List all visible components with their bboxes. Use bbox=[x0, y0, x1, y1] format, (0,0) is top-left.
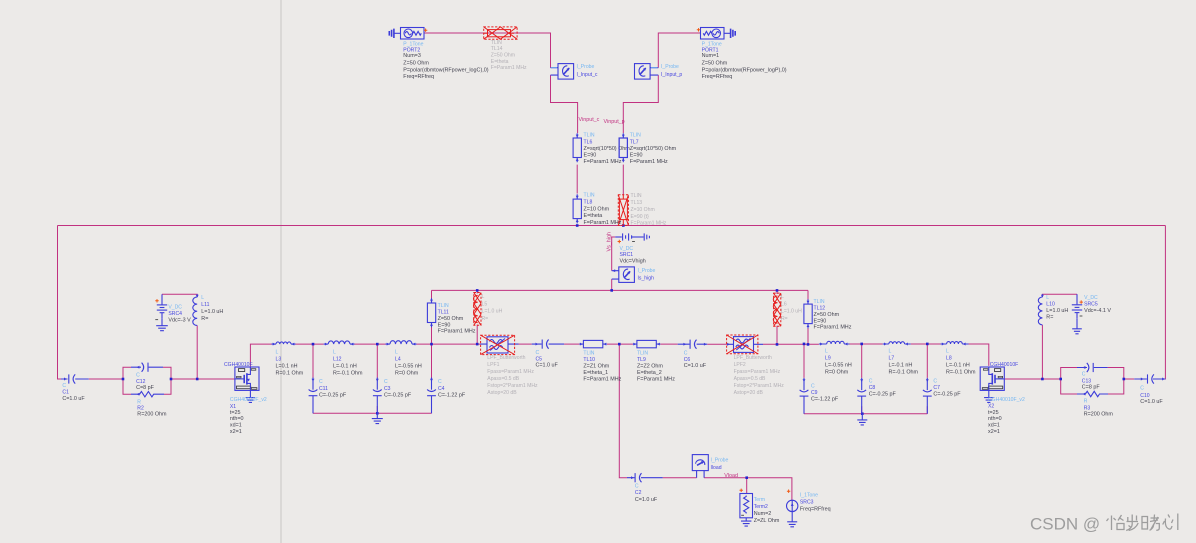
svg-text:C=-0.25 pF: C=-0.25 pF bbox=[933, 392, 961, 398]
capacitor C1 bbox=[61, 378, 89, 380]
inductor L11 bbox=[196, 294, 198, 297]
svg-text:Z=ZL Ohm: Z=ZL Ohm bbox=[754, 518, 780, 524]
svg-text:SRC1: SRC1 bbox=[620, 252, 634, 258]
svg-text:L=0.1 nH: L=0.1 nH bbox=[276, 364, 298, 370]
ground of output ladder bbox=[857, 414, 867, 425]
capacitor C8 bbox=[861, 378, 863, 390]
svg-text:C=8 pF: C=8 pF bbox=[1082, 385, 1101, 391]
wire drain supply rail bbox=[432, 289, 809, 291]
wire C1 to C12 box bbox=[89, 378, 123, 380]
wire C4 column bbox=[431, 344, 433, 413]
svg-text:L12: L12 bbox=[333, 357, 342, 363]
svg-text:Fpass=Param1 MHz: Fpass=Param1 MHz bbox=[487, 369, 534, 375]
wire LPF2 to L9 bbox=[763, 343, 819, 345]
svg-text:C=-1.22 pF: C=-1.22 pF bbox=[438, 393, 466, 399]
resistor R2 (in RC box) bbox=[131, 392, 164, 397]
svg-text:R=-0.1 Ohm: R=-0.1 Ohm bbox=[946, 370, 976, 376]
svg-text:Z=10 Ohm: Z=10 Ohm bbox=[584, 206, 610, 212]
wire PORT2 to TL14 to corner bbox=[425, 33, 551, 68]
svg-text:L: L bbox=[825, 349, 828, 355]
svg-text:C6: C6 bbox=[684, 357, 691, 363]
transmission line TLIN TL12 bbox=[807, 299, 809, 328]
svg-text:Num=2: Num=2 bbox=[754, 511, 772, 517]
page boundary line bbox=[280, 0, 282, 543]
svg-text:TL11: TL11 bbox=[438, 310, 449, 316]
wire TL11 top bbox=[431, 290, 433, 302]
svg-text:R: R bbox=[1084, 399, 1088, 405]
svg-text:P=polar(dbmtow(RFpower_logC),0: P=polar(dbmtow(RFpower_logC),0) bbox=[403, 68, 488, 74]
inductor L8 bbox=[941, 343, 969, 345]
wire C12R2 box to X1 gate bbox=[171, 378, 235, 380]
wire left drop to C1 bbox=[58, 226, 62, 380]
svg-text:TLIN: TLIN bbox=[584, 133, 595, 139]
svg-text:TLIN: TLIN bbox=[491, 40, 502, 46]
svg-text:C: C bbox=[869, 379, 873, 385]
deactivated inductor L6 bbox=[773, 296, 777, 323]
deactivated inductor L5 bbox=[473, 295, 477, 322]
svg-text:C4: C4 bbox=[438, 386, 445, 392]
svg-text:L=-0.1 nH: L=-0.1 nH bbox=[889, 363, 913, 369]
svg-text:L: L bbox=[781, 294, 784, 300]
transmission line TLIN TL8 bbox=[576, 194, 578, 223]
svg-text:Is_high: Is_high bbox=[638, 275, 655, 281]
svg-text:x2=1: x2=1 bbox=[988, 429, 1000, 435]
svg-text:L=-0.1 nH: L=-0.1 nH bbox=[946, 363, 970, 369]
wire right drop to C10 bbox=[1155, 226, 1166, 380]
svg-text:V_DC: V_DC bbox=[1084, 295, 1098, 301]
ground of input ladder bbox=[372, 413, 383, 423]
wire I_Input_c to Vinput_c node bbox=[551, 75, 578, 133]
svg-text:I_1Tone: I_1Tone bbox=[800, 493, 818, 499]
svg-text:L=-0.1 nH: L=-0.1 nH bbox=[333, 364, 357, 370]
wire SRC4 to L11 bbox=[162, 294, 197, 297]
capacitor C11 bbox=[312, 378, 314, 390]
svg-text:R=: R= bbox=[201, 316, 208, 322]
svg-text:Z=50 Ohm: Z=50 Ohm bbox=[491, 53, 515, 59]
junction L10 gate bias node bbox=[1041, 378, 1044, 381]
svg-text:L=-0.55 nH: L=-0.55 nH bbox=[825, 363, 852, 369]
svg-text:C: C bbox=[635, 484, 639, 490]
svg-text:Fstop=2*Param1 MHz: Fstop=2*Param1 MHz bbox=[734, 383, 785, 389]
capacitor C5 bbox=[532, 343, 564, 345]
resistor R3 (in RC box) bbox=[1077, 391, 1108, 396]
svg-text:R=0.1 Ohm: R=0.1 Ohm bbox=[276, 371, 304, 377]
svg-text:R=: R= bbox=[1046, 315, 1053, 321]
svg-text:R=0 Ohm: R=0 Ohm bbox=[395, 371, 419, 377]
svg-text:L: L bbox=[482, 294, 485, 300]
junction L5-supply rail bbox=[476, 289, 479, 292]
wire TL6 to TL8 bbox=[576, 165, 578, 194]
wire Is_high to rail bbox=[611, 279, 613, 290]
svg-text:LPF_Butterworth: LPF_Butterworth bbox=[734, 355, 772, 361]
wire TL12 bottom bbox=[807, 324, 809, 345]
svg-text:LPF1: LPF1 bbox=[487, 362, 499, 368]
svg-text:C2: C2 bbox=[635, 490, 642, 496]
wire output to C2 bbox=[619, 344, 627, 478]
junction L6 node bbox=[776, 343, 779, 346]
svg-text:L=1.0 uH: L=1.0 uH bbox=[781, 309, 802, 315]
svg-text:Vinput_p: Vinput_p bbox=[604, 119, 625, 125]
svg-text:Z=10 Ohm: Z=10 Ohm bbox=[631, 207, 655, 213]
svg-text:L: L bbox=[946, 349, 949, 355]
svg-text:I_Input_p: I_Input_p bbox=[661, 72, 682, 78]
svg-text:C=-1.22 pF: C=-1.22 pF bbox=[811, 397, 839, 403]
wire C3 column bbox=[376, 344, 378, 413]
current probe I_Probe Is_high bbox=[612, 271, 619, 279]
svg-text:C10: C10 bbox=[1140, 393, 1150, 399]
junction C13 box left pin bbox=[1059, 378, 1062, 381]
wire L7 to C7 node bbox=[911, 343, 941, 345]
wire X2 gate to C13R3 box bbox=[1004, 378, 1060, 380]
deactivated TLIN TL13 bbox=[619, 199, 627, 220]
port symbol P_1Tone PORT1 (mirrored) bbox=[701, 28, 736, 40]
current probe I_Probe I_Input_c bbox=[551, 68, 559, 75]
svg-text:C: C bbox=[136, 372, 140, 378]
svg-text:t=25: t=25 bbox=[988, 410, 999, 416]
transmission line TLIN TL7 bbox=[622, 133, 624, 162]
svg-text:E=90: E=90 bbox=[438, 322, 451, 328]
wire SRC1 link bbox=[612, 236, 616, 238]
svg-text:Z=50 Ohm: Z=50 Ohm bbox=[438, 316, 464, 322]
svg-text:F=Param1 MHz: F=Param1 MHz bbox=[814, 325, 852, 331]
svg-text:C=1.0 uF: C=1.0 uF bbox=[62, 396, 85, 402]
svg-text:E=theta: E=theta bbox=[491, 59, 509, 65]
wire C12R2 box outline bbox=[123, 367, 171, 394]
svg-text:F=Param1 MHz: F=Param1 MHz bbox=[630, 159, 668, 165]
svg-text:F=Param1 MHz: F=Param1 MHz bbox=[583, 376, 621, 382]
junction L11 gate bias node bbox=[196, 378, 199, 381]
svg-text:R=-0.1 Ohm: R=-0.1 Ohm bbox=[333, 371, 363, 377]
wire LPF1 to C5 bbox=[519, 343, 532, 345]
svg-text:C: C bbox=[933, 379, 937, 385]
svg-text:E=90 {t}: E=90 {t} bbox=[631, 214, 650, 220]
wire L6 bottom bbox=[776, 326, 778, 345]
svg-text:C: C bbox=[536, 350, 540, 356]
wire Vs_high column bbox=[611, 237, 613, 271]
junction C3 node bbox=[376, 343, 379, 346]
svg-text:C7: C7 bbox=[933, 385, 940, 391]
wire L10 to gate node bbox=[1041, 325, 1043, 379]
svg-text:C11: C11 bbox=[319, 386, 328, 392]
svg-text:x2=1: x2=1 bbox=[230, 429, 242, 435]
svg-text:C: C bbox=[438, 379, 442, 385]
wire input ladder ground rail bbox=[313, 412, 432, 414]
wire TL12 top bbox=[807, 290, 809, 304]
wire Term2 drop bbox=[746, 478, 748, 494]
svg-text:F=Param1 MHz: F=Param1 MHz bbox=[584, 220, 622, 226]
svg-text:C: C bbox=[811, 384, 815, 390]
ground of SRC4 bbox=[156, 318, 168, 330]
svg-text:L3: L3 bbox=[276, 357, 282, 363]
svg-text:TL10: TL10 bbox=[583, 357, 595, 363]
junction C7 node bbox=[926, 343, 929, 346]
wire L8 to X2 drain riser bbox=[969, 344, 989, 366]
wire L10 to SRC5 bbox=[1042, 294, 1077, 297]
svg-text:Num=3: Num=3 bbox=[403, 53, 421, 59]
transmission line TLIN TL11 bbox=[431, 298, 433, 327]
deactivated filter LPF_Butterworth LPF1 bbox=[480, 343, 518, 345]
svg-text:TL9: TL9 bbox=[637, 357, 646, 363]
svg-text:TL8: TL8 bbox=[584, 200, 593, 206]
svg-text:TLIN: TLIN bbox=[631, 193, 642, 199]
svg-text:Apass=0.5 dB: Apass=0.5 dB bbox=[487, 376, 519, 382]
svg-text:P=polar(dbmtow(RFpower_logP),0: P=polar(dbmtow(RFpower_logP),0) bbox=[702, 68, 787, 74]
svg-text:Num=1: Num=1 bbox=[702, 53, 720, 59]
svg-text:CGH40010F_v2: CGH40010F_v2 bbox=[988, 397, 1025, 403]
svg-text:SRC5: SRC5 bbox=[1084, 301, 1098, 307]
svg-text:V_DC: V_DC bbox=[168, 305, 182, 311]
inductor L3 bbox=[272, 343, 296, 345]
wire C9 column bbox=[803, 344, 805, 414]
svg-text:LPF2: LPF2 bbox=[734, 362, 746, 368]
svg-text:F=Param1 MHz: F=Param1 MHz bbox=[637, 376, 675, 382]
svg-text:I_Probe: I_Probe bbox=[577, 64, 595, 70]
wire C11 column bbox=[312, 344, 314, 413]
svg-text:C: C bbox=[62, 383, 66, 389]
junction Vload-Term2 bbox=[745, 476, 748, 479]
port symbol P_1Tone PORT2 bbox=[389, 28, 424, 40]
svg-text:Z=50 Ohm: Z=50 Ohm bbox=[702, 60, 728, 66]
svg-text:L5: L5 bbox=[482, 301, 488, 307]
wire gate bias rail bbox=[58, 225, 1166, 227]
svg-text:Vload: Vload bbox=[724, 473, 738, 479]
svg-text:L=1.0 uH: L=1.0 uH bbox=[1046, 308, 1068, 314]
wire output ladder ground rail bbox=[804, 413, 927, 415]
capacitor C9 bbox=[803, 378, 805, 390]
svg-text:C: C bbox=[684, 351, 688, 357]
svg-text:C3: C3 bbox=[384, 386, 391, 392]
svg-text:Freq=RFfreq: Freq=RFfreq bbox=[800, 507, 831, 513]
junction C8 node bbox=[860, 343, 863, 346]
svg-text:C: C bbox=[1082, 372, 1086, 378]
wire C2 to Iload probe bbox=[663, 477, 697, 479]
inductor L7 bbox=[883, 343, 911, 345]
svg-text:R=: R= bbox=[781, 316, 788, 322]
transmission line TLIN TL9 bbox=[633, 343, 660, 345]
svg-text:C=1.0 uF: C=1.0 uF bbox=[1140, 399, 1163, 405]
junction L5 node bbox=[476, 343, 479, 346]
svg-text:Term2: Term2 bbox=[754, 504, 768, 510]
svg-text:F=Param1 MHz: F=Param1 MHz bbox=[631, 221, 667, 227]
transmission line TLIN TL10 bbox=[579, 343, 606, 345]
deactivated filter LPF_Butterworth LPF2 bbox=[727, 343, 763, 345]
svg-text:Z=Z2 Ohm: Z=Z2 Ohm bbox=[637, 363, 663, 369]
wire L12 to C3 node bbox=[355, 343, 386, 345]
inductor L10 bbox=[1041, 294, 1043, 297]
svg-text:I_Probe: I_Probe bbox=[711, 458, 729, 464]
svg-text:CSDN @: CSDN @ bbox=[1030, 515, 1100, 534]
junction C9 node bbox=[803, 343, 806, 346]
svg-text:Astop=20 dB: Astop=20 dB bbox=[487, 390, 517, 396]
inductor L4 bbox=[386, 343, 417, 345]
svg-text:t=25: t=25 bbox=[230, 410, 241, 416]
ground of X2 source bbox=[988, 390, 990, 397]
svg-text:CGH40010F: CGH40010F bbox=[224, 362, 253, 368]
svg-text:R=0 Ohm: R=0 Ohm bbox=[825, 370, 849, 376]
svg-text:nth=0: nth=0 bbox=[230, 416, 244, 422]
deactivated TLIN TL14 bbox=[488, 30, 511, 37]
svg-text:CGH40010F_v2: CGH40010F_v2 bbox=[230, 397, 267, 403]
svg-text:L8: L8 bbox=[946, 356, 952, 362]
transistor X2 CGH40010F (mirrored) bbox=[980, 367, 1004, 390]
svg-text:C13: C13 bbox=[1082, 378, 1092, 384]
svg-text:C=8 pF: C=8 pF bbox=[136, 385, 155, 391]
wire C6 to LPF2 bbox=[707, 343, 727, 345]
wire TL10 to output node bbox=[607, 343, 633, 345]
svg-text:Freq=RFfreq: Freq=RFfreq bbox=[702, 74, 733, 80]
wire TL9 to C6 bbox=[660, 343, 677, 345]
svg-text:C1: C1 bbox=[62, 390, 69, 396]
wire C13R3 box outline bbox=[1061, 368, 1124, 395]
svg-text:Vdc=Vhigh: Vdc=Vhigh bbox=[620, 259, 646, 265]
svg-text:C=-0.25 pF: C=-0.25 pF bbox=[869, 392, 897, 398]
svg-text:CGH40010F: CGH40010F bbox=[990, 362, 1019, 368]
svg-text:R: R bbox=[137, 399, 141, 405]
svg-text:F=Param1 MHz: F=Param1 MHz bbox=[584, 159, 622, 165]
svg-text:C8: C8 bbox=[869, 385, 876, 391]
svg-text:C=1.0 uF: C=1.0 uF bbox=[536, 363, 559, 369]
wire I_Input_p to Vinput_p node bbox=[623, 75, 658, 133]
wire C5 to TL10 bbox=[564, 343, 579, 345]
svg-text:Z=50 Ohm: Z=50 Ohm bbox=[403, 60, 429, 66]
dc source V_DC SRC1 bbox=[615, 236, 622, 238]
svg-text:L: L bbox=[889, 349, 892, 355]
svg-text:TLIN: TLIN bbox=[637, 350, 648, 356]
svg-text:TL12: TL12 bbox=[814, 306, 826, 312]
junction C4-TL11 node bbox=[430, 343, 433, 346]
capacitor C13 (in RC box) bbox=[1077, 367, 1108, 369]
inductor L9 bbox=[819, 343, 850, 345]
junction output ladder ground bbox=[861, 412, 864, 415]
svg-text:L6: L6 bbox=[781, 301, 787, 307]
capacitor C4 bbox=[431, 378, 433, 390]
svg-text:L: L bbox=[1046, 295, 1049, 301]
junction Is_high-supply rail bbox=[610, 289, 613, 292]
svg-text:TLIN: TLIN bbox=[814, 299, 825, 305]
wire C13R3 box to C10 bbox=[1124, 378, 1134, 380]
wire TL7 to TL13 bbox=[622, 165, 624, 195]
svg-text:LPF_Butterworth: LPF_Butterworth bbox=[487, 355, 525, 361]
svg-text:xd=1: xd=1 bbox=[230, 423, 242, 429]
transistor X1 CGH40010F bbox=[235, 367, 259, 390]
svg-text:L=-0.55 nH: L=-0.55 nH bbox=[395, 364, 422, 370]
junction C12 box right pin bbox=[170, 378, 173, 381]
svg-text:X2: X2 bbox=[988, 404, 994, 410]
svg-text:C=1.0 uF: C=1.0 uF bbox=[635, 497, 658, 503]
svg-text:L: L bbox=[201, 295, 204, 301]
svg-text:TL6: TL6 bbox=[584, 140, 593, 146]
dc source V_DC SRC4 bbox=[161, 294, 163, 304]
wire L5 bottom bbox=[476, 325, 478, 345]
svg-text:TL7: TL7 bbox=[630, 140, 639, 146]
wire L3 to C11 node bbox=[296, 343, 324, 345]
wire PORT1 to corner bbox=[658, 33, 700, 68]
current probe I_Probe Iload bbox=[697, 471, 705, 478]
transmission line TLIN TL6 bbox=[576, 133, 578, 162]
wire L4 to TL11 node bbox=[417, 343, 481, 345]
svg-text:Vinput_c: Vinput_c bbox=[579, 117, 600, 123]
svg-text:E=90: E=90 bbox=[814, 318, 827, 324]
svg-text:L11: L11 bbox=[201, 302, 209, 308]
junction output node bbox=[618, 343, 621, 346]
svg-text:C=1.0 uF: C=1.0 uF bbox=[684, 363, 707, 369]
svg-text:Fpass=Param1 MHz: Fpass=Param1 MHz bbox=[734, 369, 781, 375]
svg-text:SRC4: SRC4 bbox=[168, 311, 182, 317]
current probe I_Probe I_Input_p (mirrored) bbox=[650, 68, 658, 75]
junction TL13-rail bbox=[622, 224, 625, 227]
svg-text:L: L bbox=[395, 350, 398, 356]
svg-text:xd=1: xd=1 bbox=[988, 423, 1000, 429]
svg-text:L: L bbox=[333, 350, 336, 356]
svg-text:Z=50 Ohm: Z=50 Ohm bbox=[814, 312, 840, 318]
capacitor C10 bbox=[1134, 378, 1165, 380]
svg-text:C=-0.25 pF: C=-0.25 pF bbox=[384, 393, 412, 399]
wire X1 drain riser bbox=[250, 344, 271, 367]
junction TL8-rail bbox=[576, 224, 579, 227]
wire C8 column bbox=[861, 344, 863, 414]
inductor L12 bbox=[324, 343, 355, 345]
svg-text:L9: L9 bbox=[825, 356, 831, 362]
svg-text:L=1.0 uH: L=1.0 uH bbox=[482, 309, 503, 315]
junction L6-supply rail bbox=[776, 289, 779, 292]
svg-text:SRC3: SRC3 bbox=[800, 500, 814, 506]
svg-text:F=Param1 MHz: F=Param1 MHz bbox=[491, 65, 527, 71]
capacitor C2 bbox=[627, 477, 663, 479]
svg-text:E=90: E=90 bbox=[584, 153, 597, 159]
svg-text:Z=Z1 Ohm: Z=Z1 Ohm bbox=[583, 363, 609, 369]
capacitor C3 bbox=[376, 378, 378, 390]
ground of SRC3 bbox=[791, 512, 793, 522]
svg-text:F=Param1 MHz: F=Param1 MHz bbox=[438, 329, 476, 335]
svg-text:L=1.0 uH: L=1.0 uH bbox=[201, 309, 223, 315]
dc source V_DC SRC5 bbox=[1076, 294, 1078, 304]
svg-text:Iload: Iload bbox=[711, 465, 722, 471]
ground of SRC5 bbox=[1072, 318, 1082, 334]
svg-text:L10: L10 bbox=[1046, 302, 1055, 308]
svg-text:C: C bbox=[384, 379, 388, 385]
wire L11 to gate node bbox=[196, 326, 198, 380]
svg-text:R=-0.1 Ohm: R=-0.1 Ohm bbox=[889, 370, 919, 376]
ground of Term2 bbox=[741, 518, 751, 526]
junction C11 node bbox=[312, 343, 315, 346]
current source I_1Tone SRC3 bbox=[787, 500, 798, 511]
svg-text:R=: R= bbox=[482, 316, 489, 322]
junction C12 box left pin bbox=[122, 378, 125, 381]
svg-text:E=90: E=90 bbox=[630, 153, 643, 159]
wire Vload node wire bbox=[704, 478, 792, 501]
svg-text:V_DC: V_DC bbox=[620, 246, 634, 252]
wire L9 to C8 node bbox=[850, 343, 883, 345]
ground of X1 source bbox=[249, 390, 251, 397]
svg-text:TLIN: TLIN bbox=[584, 193, 595, 199]
svg-text:I_Input_c: I_Input_c bbox=[577, 72, 598, 78]
svg-text:L: L bbox=[276, 350, 279, 356]
svg-text:TL13: TL13 bbox=[631, 200, 643, 206]
svg-text:C: C bbox=[1140, 386, 1144, 392]
capacitor C12 (in RC box) bbox=[131, 366, 163, 368]
svg-text:Term: Term bbox=[754, 497, 765, 503]
transmission line TL7 symbol overlay bbox=[619, 138, 627, 158]
svg-text:C9: C9 bbox=[811, 390, 818, 396]
svg-text:nth=0: nth=0 bbox=[988, 416, 1002, 422]
svg-text:L7: L7 bbox=[889, 356, 895, 362]
svg-text:Z=sqrt(10*50) Ohm: Z=sqrt(10*50) Ohm bbox=[630, 146, 677, 152]
svg-text:R3: R3 bbox=[1084, 405, 1091, 411]
svg-text:Astop=20 dB: Astop=20 dB bbox=[734, 390, 764, 396]
svg-text:E=theta: E=theta bbox=[584, 213, 603, 219]
svg-text:Fstop=2*Param1 MHz: Fstop=2*Param1 MHz bbox=[487, 383, 538, 389]
svg-text:TLIN: TLIN bbox=[630, 133, 641, 139]
